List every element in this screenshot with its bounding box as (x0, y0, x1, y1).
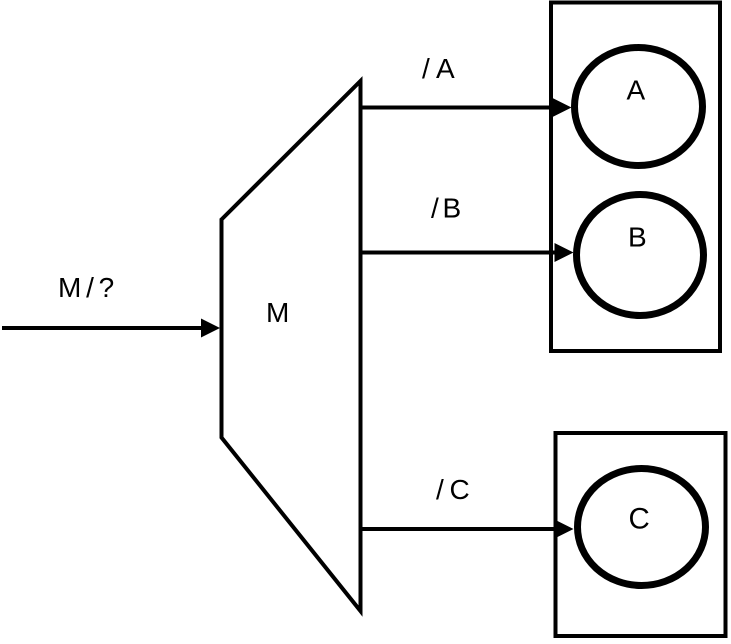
wire arrow /C (361, 520, 574, 539)
svg-text:/ B: / B (431, 193, 461, 224)
wire input arrow M/? (2, 319, 220, 338)
circle B (577, 195, 704, 316)
rectangle top (container of A and B) (551, 3, 720, 352)
svg-text:A: A (627, 75, 646, 106)
circle A (575, 48, 703, 166)
wire arrow /A (361, 98, 572, 117)
wire arrow /B (361, 243, 574, 262)
svg-text:/ A: / A (422, 53, 455, 84)
svg-text:M / ?: M / ? (58, 272, 114, 303)
rectangle bottom (container of C) (556, 433, 726, 636)
svg-text:C: C (629, 503, 650, 536)
svg-text:M: M (266, 297, 289, 328)
circle C (578, 469, 706, 586)
svg-text:B: B (628, 222, 647, 253)
trapezoid M (demux) (222, 81, 361, 611)
svg-text:/ C: / C (436, 474, 470, 505)
